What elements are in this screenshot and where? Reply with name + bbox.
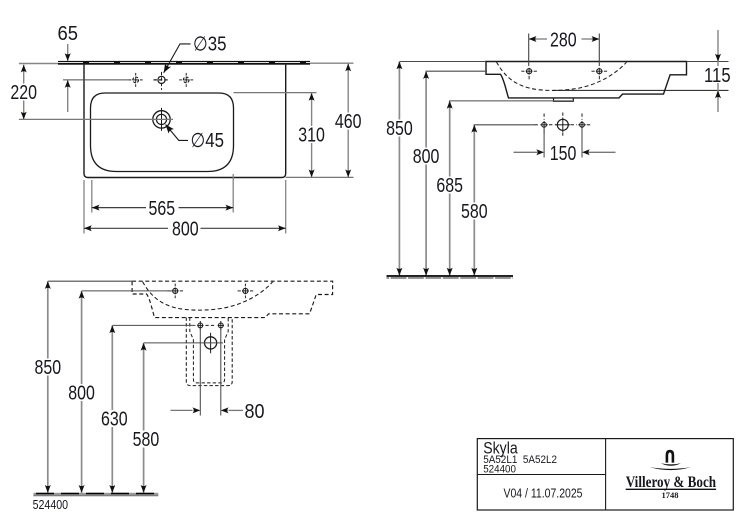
dim 800 (front)	[412, 71, 442, 275]
Villeroy & Boch logo arch	[666, 450, 675, 463]
logo underline	[626, 488, 716, 490]
tap hole left (dashed, optional)	[129, 73, 143, 87]
washbasin outline (plan)	[84, 65, 286, 178]
extension line from wall to left (for 65/220 dims)	[19, 63, 58, 65]
reference line 580 (supplies)	[474, 124, 535, 126]
leader for diameter 45	[163, 122, 188, 140]
svg-text:80: 80	[245, 401, 265, 423]
svg-text:685: 685	[436, 175, 463, 197]
svg-text:1748: 1748	[662, 490, 679, 500]
svg-text:280: 280	[550, 29, 577, 51]
dashes between trap holes	[206, 324, 217, 326]
reference line 580 (drain)	[144, 342, 223, 344]
fixing hole left (front)	[521, 68, 537, 80]
svg-text:524400: 524400	[33, 497, 69, 512]
svg-text:800: 800	[413, 146, 440, 168]
title block horizontal divider	[477, 474, 605, 476]
supply connection right	[578, 121, 586, 129]
floor bar (side view)	[33, 493, 158, 496]
80 extension lines	[199, 328, 201, 416]
svg-text:580: 580	[133, 429, 160, 451]
trap fixing hole left	[197, 321, 203, 330]
tap hole centre (solid)	[154, 72, 170, 90]
extension line to drain centre (220 ref)	[19, 118, 173, 120]
svg-text:65: 65	[58, 23, 79, 45]
visible inner bottom edge	[554, 89, 729, 91]
dim 800 (side)	[67, 291, 97, 493]
svg-text:800: 800	[172, 219, 199, 241]
svg-text:850: 850	[386, 118, 413, 140]
hidden basin curve (dashed)	[497, 62, 627, 90]
dim 565 (basin width)	[92, 174, 233, 220]
trap cover inner (dashed)	[190, 318, 228, 383]
svg-text:∅45: ∅45	[191, 130, 225, 152]
dim 580 (front)	[460, 125, 490, 276]
dim 850 (front)	[385, 62, 415, 276]
svg-text:150: 150	[550, 143, 577, 165]
tap hole right (dashed, optional)	[179, 73, 193, 87]
reference line 850 (top edge)	[399, 61, 486, 63]
svg-text:565: 565	[149, 198, 176, 220]
svg-text:V04 / 11.07.2025: V04 / 11.07.2025	[504, 486, 583, 501]
svg-text:∅35: ∅35	[193, 34, 227, 56]
dashed centrelines of supply group	[535, 113, 593, 138]
floor bar (front view)	[387, 276, 514, 279]
svg-text:580: 580	[461, 201, 488, 223]
dim 150 (supply spacing)	[514, 128, 616, 165]
hidden basin curve (dashed)	[143, 282, 273, 310]
svg-text:460: 460	[335, 111, 362, 133]
trap fixing hole right	[218, 321, 224, 330]
reference line 800 (fixing holes)	[426, 70, 488, 72]
dim 65 (wall to tap holes)	[58, 23, 132, 112]
dim 630 (side)	[100, 325, 130, 492]
washbasin front outline	[486, 62, 687, 98]
svg-text:220: 220	[10, 82, 37, 104]
dim 580 (side)	[131, 343, 161, 493]
svg-text:115: 115	[704, 65, 731, 87]
supply connection left	[540, 121, 548, 129]
dim 220 (wall to drain)	[10, 65, 39, 120]
svg-text:630: 630	[101, 409, 128, 431]
hidden washbasin outline (dashed)	[132, 281, 333, 317]
leader for diameter 35	[161, 44, 191, 75]
fixing hole left (solid)	[167, 284, 183, 299]
svg-text:800: 800	[68, 383, 95, 405]
dim 280 (fixing hole spacing)	[529, 29, 600, 66]
reference line 630 (trap holes)	[112, 324, 195, 326]
title block frame	[477, 439, 733, 510]
dim 685 (front)	[435, 101, 465, 276]
drain hole with overflow (plan)	[153, 108, 170, 131]
dim 460 (wall to front edge)	[286, 63, 363, 177]
reference line 685 (ceramic bottom)	[449, 100, 574, 102]
dim 850 (side)	[33, 281, 63, 493]
supply connection centre	[556, 118, 571, 133]
fixing hole right (front)	[592, 68, 608, 80]
logo swoosh upper	[661, 463, 681, 466]
dim 800 (overall width, plan)	[84, 180, 286, 241]
drain boss under basin	[554, 98, 574, 101]
dim 310 (basin top to front edge)	[234, 93, 327, 178]
reference line 850 (deck top)	[48, 280, 133, 282]
inner basin outline (plan)	[91, 93, 234, 172]
trap shield outer (dashed)	[186, 318, 232, 386]
dim 115 (ceramic height)	[687, 30, 733, 112]
dim 80	[171, 401, 265, 423]
svg-text:524400: 524400	[483, 463, 516, 475]
fixing hole right (solid)	[238, 284, 254, 299]
svg-text:310: 310	[298, 125, 325, 147]
title block vertical divider	[605, 439, 607, 510]
svg-text:850: 850	[35, 357, 62, 379]
wall bar (mounting wall edge)	[58, 61, 310, 65]
logo swoosh lower	[650, 467, 692, 470]
drain outlet circle	[205, 333, 217, 353]
extension line from wall to right (for 460 dim)	[310, 62, 354, 64]
reference line 800 (fixing holes)	[82, 290, 173, 292]
